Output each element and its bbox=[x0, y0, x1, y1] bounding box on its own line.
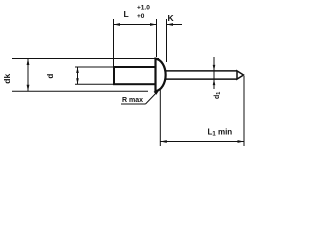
svg-text:d: d bbox=[46, 74, 55, 79]
svg-text:+0: +0 bbox=[137, 13, 145, 20]
svg-text:+1.0: +1.0 bbox=[137, 5, 150, 12]
svg-text:K: K bbox=[168, 13, 175, 23]
svg-text:d1: d1 bbox=[214, 92, 222, 99]
svg-text:R max: R max bbox=[122, 97, 143, 104]
svg-text:L1 min: L1 min bbox=[208, 128, 233, 138]
svg-text:dk: dk bbox=[2, 74, 12, 84]
svg-text:L: L bbox=[124, 9, 129, 19]
